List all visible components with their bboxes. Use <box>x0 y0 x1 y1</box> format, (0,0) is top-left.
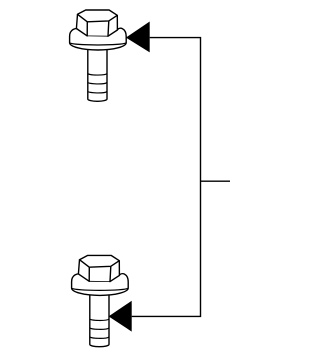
bolt 1 (upper hex flange bolt) <box>70 10 127 101</box>
bracket: top leader line, right vertical, bottom leader line <box>132 38 201 317</box>
arrow to bolt 2 (points at shaft) <box>109 301 132 332</box>
bolt 2 (lower hex flange bolt) <box>72 255 129 346</box>
bracket middle tick <box>201 180 231 182</box>
arrow to bolt 1 (points at washer) <box>126 22 150 53</box>
